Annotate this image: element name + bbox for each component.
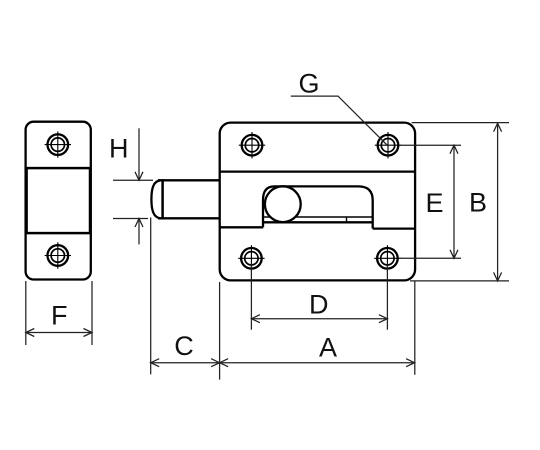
svg-text:B: B <box>469 188 487 218</box>
svg-text:F: F <box>51 300 68 330</box>
svg-text:C: C <box>174 331 194 361</box>
svg-text:D: D <box>309 289 329 319</box>
svg-text:A: A <box>319 333 337 363</box>
svg-text:H: H <box>109 133 129 163</box>
svg-text:G: G <box>298 69 319 99</box>
svg-text:E: E <box>425 188 443 218</box>
